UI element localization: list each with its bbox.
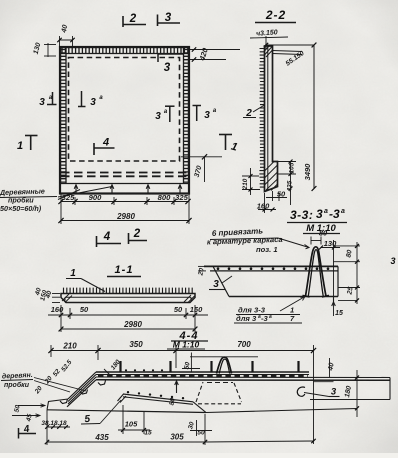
svg-text:а: а [341, 208, 345, 215]
svg-text:деревян.: деревян. [2, 371, 33, 381]
svg-text:3: 3 [316, 207, 323, 221]
dimension 50 near loop (4-4) [182, 368, 200, 370]
section 2-2 top hatch wedge [265, 46, 273, 57]
section 4-4 shelf right chamfer [193, 402, 206, 413]
dimension 105/435 right of section 2-2 base [290, 162, 292, 206]
tick across ramp [104, 369, 111, 376]
section 4-4 title [179, 330, 199, 342]
dimension 105 (4-4 bottom) [118, 429, 150, 431]
dimension 160 under section 2-2 [258, 209, 276, 211]
rebar mark 3a right outside [193, 105, 202, 107]
section 4-4 upper dots left [125, 369, 163, 371]
section 3-3 bottom line [229, 296, 338, 298]
label 55.150 rotated [285, 50, 306, 68]
section 4-4 wooden plug clips [60, 399, 68, 404]
svg-text:305: 305 [170, 433, 184, 442]
section flag 4 below plan [96, 236, 98, 247]
section 4-4 bar hook right [297, 387, 305, 396]
dimension 210 left of section 2-2 base [242, 175, 259, 177]
svg-text:2980: 2980 [116, 212, 135, 221]
callout 3 (section 4-4) [304, 393, 329, 397]
svg-text:210: 210 [62, 342, 77, 351]
section 1-1 title [115, 264, 134, 276]
inner section flag 3 top-right [158, 53, 184, 55]
plan view: wooden plug marks [75, 185, 77, 193]
note: for 3-3 / for 3a-3a [236, 306, 295, 324]
svg-text:20: 20 [197, 267, 205, 277]
callout 5 [84, 414, 91, 425]
plan view: right edge ladder hatch [184, 48, 189, 184]
section flag 2 above plan [122, 16, 124, 27]
section flag 1 left of plan [25, 135, 38, 137]
svg-text:4: 4 [103, 231, 111, 243]
svg-text:15: 15 [144, 430, 152, 437]
note: tie to framework rebar pos.1 [207, 226, 283, 254]
extension ticks for bottom dimensions [60, 194, 62, 224]
section 3-3 slab second line [210, 270, 338, 272]
svg-text:105: 105 [289, 162, 296, 173]
svg-text:3: 3 [331, 387, 337, 398]
section 4-4 left tip [47, 399, 68, 410]
svg-text:325: 325 [175, 193, 188, 202]
dimension 20 left of section 3-3 [198, 265, 206, 267]
dimension 305 [205, 441, 314, 442]
section 3-3 left break diagonal [213, 266, 229, 296]
section 1-1 end hatch right [184, 295, 195, 303]
section 2-2 top step lines [273, 51, 303, 52]
svg-text:3: 3 [213, 279, 219, 290]
dimension 40 right end (4-4) [314, 381, 334, 383]
plan view: double dashed line lower [61, 175, 188, 177]
svg-text:150: 150 [190, 305, 203, 314]
svg-text:105: 105 [125, 420, 138, 429]
svg-text:15: 15 [335, 310, 343, 317]
note wooden plugs (section 4-4) [2, 371, 33, 389]
leader from wooden plugs note [58, 187, 112, 198]
note 43.150 [256, 29, 278, 37]
section 2-2 inner line [267, 46, 269, 190]
svg-text:350: 350 [129, 340, 143, 349]
vertical dimension 3490 line [313, 45, 315, 189]
section 4-4 band rebar dashes [98, 374, 308, 377]
interior section flag 4 [94, 147, 115, 149]
section 2-2 left edge ladder hatch [259, 49, 264, 188]
svg-text:80: 80 [345, 249, 353, 258]
svg-text:пробки: пробки [4, 381, 30, 389]
dimension 40 top-left [60, 39, 74, 41]
svg-text:800: 800 [158, 193, 171, 202]
svg-text:210: 210 [242, 178, 249, 190]
svg-text:3: 3 [165, 12, 172, 24]
plan view: panel outer rectangle [60, 47, 189, 194]
plan view: double dashed line upper [61, 172, 188, 174]
section 4-4 lifting loop [217, 357, 232, 373]
svg-text:80: 80 [319, 229, 328, 238]
right dimension column of section 3-3 [333, 240, 335, 316]
dimension row 325/900/800/325 [61, 201, 189, 203]
plan view: top edge ladder hatch [60, 48, 189, 54]
section 1-1 dimension 2980 [61, 328, 195, 330]
dimension 50 under section 2-2 [272, 191, 274, 201]
svg-text:435: 435 [94, 433, 109, 442]
dimension 370 right of plan [181, 156, 222, 158]
svg-text:3: 3 [204, 110, 210, 121]
cut-off 3 at right edge [390, 256, 395, 266]
svg-text:435: 435 [287, 180, 294, 192]
section 2-2 bottom hatching [265, 162, 278, 191]
svg-text:160: 160 [51, 305, 64, 314]
svg-text:3: 3 [39, 97, 45, 108]
svg-text:325: 325 [62, 193, 75, 202]
section 3-3 right edge [337, 266, 339, 296]
section 4-4 dashed recess trapezoid [196, 382, 203, 402]
svg-text:а: а [324, 208, 328, 215]
dimension 420 top-right rotated [190, 49, 240, 51]
callout 3 (section 3-3 slab) [213, 279, 219, 290]
section 4-4 left diagonal ramp [68, 372, 96, 399]
section 3-3 slab top line [204, 265, 338, 267]
rebar mark 3a left inside [81, 91, 83, 107]
svg-text:50: 50 [277, 190, 286, 199]
note: wooden plugs text [0, 186, 57, 213]
section 3-3 / 3a-3a title [290, 207, 345, 222]
svg-text:поз. 1: поз. 1 [256, 245, 278, 254]
dimension 80 between slab and shelf [176, 381, 178, 393]
section flag 2 below plan [128, 233, 130, 244]
svg-text:700: 700 [237, 340, 251, 349]
section 4-4 top dimension row 210/350/700 [51, 350, 314, 352]
section 1-1 end hatch left [62, 294, 72, 303]
section 4-4 shelf rebar dots [127, 391, 184, 399]
svg-text:3: 3 [90, 97, 96, 108]
left small dims 50 / 45 (section 4-4) [18, 405, 45, 407]
dimension 130 top-left rotated [47, 43, 49, 57]
svg-text:130: 130 [324, 239, 337, 248]
section 4-4 bottom outline line [47, 410, 206, 413]
leader arrow to loop [278, 238, 309, 248]
diagonal thickness labels 20/52/52.5 [33, 358, 122, 396]
svg-text:2980: 2980 [123, 320, 142, 329]
svg-text:3: 3 [164, 62, 171, 74]
section flag 3 above plan [157, 15, 159, 27]
rebar mark 3a left outside [39, 95, 53, 108]
section 4-4 slab band lines [96, 371, 309, 373]
dimension 435 [47, 441, 205, 443]
section 1-1 dimension row 160/50...50/150 [48, 314, 208, 316]
dimension 2980 (plan) [61, 220, 189, 222]
section 1-1 rebar comb on top [64, 288, 193, 294]
dimension 80 above loop [311, 240, 321, 242]
svg-text:3: 3 [155, 111, 161, 122]
dimension line 150 top of section 2-2 [265, 44, 314, 46]
section 4-4 stirrup ticks [119, 361, 121, 372]
svg-text:160: 160 [257, 202, 270, 211]
section 2-2 title [265, 8, 286, 22]
svg-text:4: 4 [102, 137, 109, 149]
callout 1 (section 1-1) [70, 268, 76, 279]
svg-text:для 3: для 3 [236, 314, 257, 323]
svg-text:-3: -3 [261, 314, 269, 323]
section 4-4 right end edge [389, 378, 391, 400]
section flag 1 right of plan [219, 134, 232, 136]
svg-text:2-2: 2-2 [265, 8, 286, 22]
svg-text:50: 50 [197, 430, 205, 437]
section 1-1 slab outline [61, 294, 195, 303]
svg-text:50: 50 [80, 305, 89, 314]
section 3-3 rebar dots [217, 267, 330, 270]
plan view: left edge ladder hatch [61, 48, 67, 184]
svg-text:-3: -3 [329, 207, 340, 221]
section 1-1 left rotated dims 40/150/40 [34, 287, 53, 302]
section flag 4 bottom left [19, 433, 37, 435]
svg-text:3490: 3490 [303, 163, 312, 181]
svg-text:3-3:: 3-3: [290, 208, 313, 222]
plan view: inner dashed rectangle (opening outline) [69, 58, 180, 162]
section 1-1 inner rebar line [65, 296, 191, 298]
svg-text:1: 1 [17, 140, 23, 152]
dimension 130 right of loop [321, 247, 340, 249]
construction line over loop [190, 356, 258, 358]
svg-text:2: 2 [129, 13, 137, 25]
rebar mark 3a right inside [165, 105, 175, 107]
svg-text:38.18.18: 38.18.18 [41, 420, 67, 427]
svg-text:900: 900 [89, 193, 102, 202]
svg-text:3: 3 [390, 256, 395, 266]
leader to plugs [34, 378, 86, 392]
svg-text:50: 50 [174, 305, 183, 314]
section 4-4 long bottom line right [206, 409, 357, 413]
svg-text:М 1:10: М 1:10 [173, 340, 200, 350]
svg-text:1: 1 [70, 268, 76, 279]
dimensions 30/50 right of shelf [196, 420, 198, 436]
section 4-4 shelf left chamfer [118, 394, 124, 401]
svg-text:50×50=60/h): 50×50=60/h) [0, 204, 42, 213]
dimension 180 right end vertical [356, 370, 358, 417]
dimension row 38.18.18 [47, 426, 70, 428]
section 4-4 shelf top lines [123, 394, 193, 402]
svg-text:1-1: 1-1 [115, 264, 134, 276]
plan view: bottom band solid line [60, 183, 189, 185]
leader from notes to slab [280, 297, 305, 312]
lifting loop (hairpin) section 3-3 [306, 247, 327, 296]
svg-text:2: 2 [133, 228, 141, 240]
section 2-2 panel body outline [265, 46, 278, 192]
callout 2 (section 2-2) [245, 108, 252, 119]
svg-text:45: 45 [25, 413, 33, 423]
